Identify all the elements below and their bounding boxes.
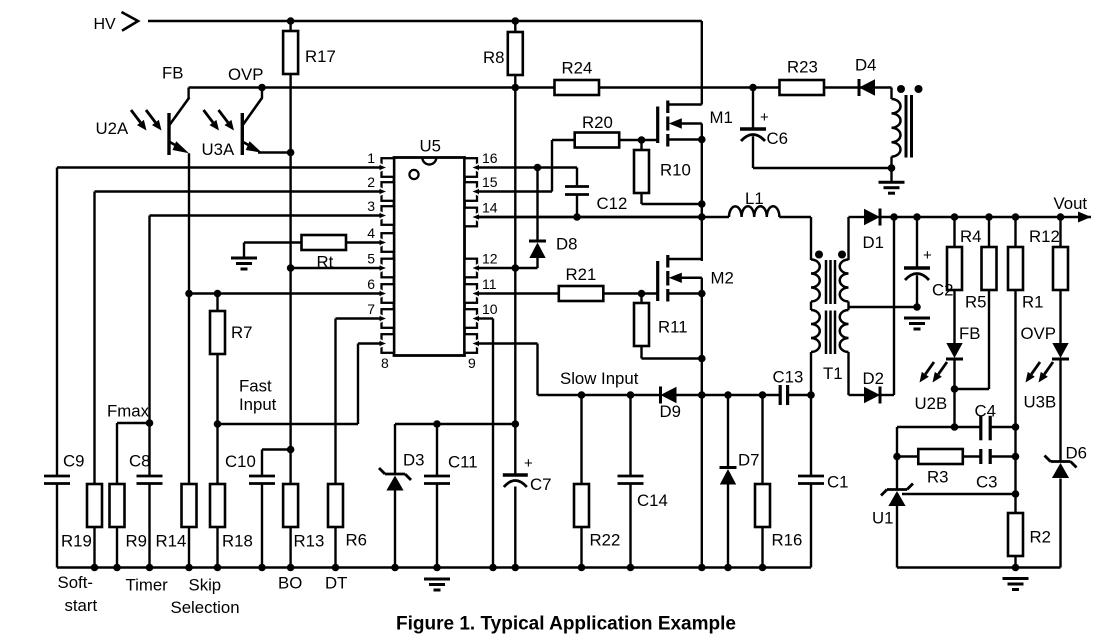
wire R2 top lead [1014,494,1016,513]
wire to R3 [897,455,919,457]
svg-text:D4: D4 [855,56,876,75]
svg-text:5: 5 [367,251,375,267]
svg-text:R2: R2 [1030,528,1051,547]
wire U2A collector [187,88,189,99]
svg-text:R4: R4 [960,227,981,246]
wire ground rail [57,566,811,568]
wire C2 bottom lead [916,274,918,307]
junction Fmax [146,419,154,427]
wire R8/Vcc column [514,21,516,476]
resistor R1 [1008,247,1023,290]
wire R10 bottom lead [640,193,642,204]
wire R16 bottom [761,527,763,568]
svg-text:Figure 1. Typical Application: Figure 1. Typical Application Example [396,614,736,635]
junction R8 bottom [512,84,520,92]
wire R12 top lead [1059,217,1061,247]
svg-text:R24: R24 [562,59,593,78]
svg-text:R18: R18 [222,532,253,551]
capacitor C3 [980,449,991,464]
svg-text:Fmax: Fmax [107,402,150,421]
capacitor C12 [565,187,589,195]
svg-text:R9: R9 [126,532,147,551]
svg-text:15: 15 [482,174,498,190]
wire U2A emitter / skip column [188,153,190,484]
resistor R8 [508,32,523,75]
junction R1 top [1012,213,1020,221]
capacitor C2 [904,268,930,280]
diode D2 [864,387,880,404]
junction M1 source [698,136,706,144]
transformer T1 core [825,260,828,304]
aux core [905,95,908,158]
wire U1 cathode to U2B [897,426,955,428]
wire R17/R13 column [289,21,291,484]
wire C8 column [148,216,150,477]
aux phase dot right [915,85,923,93]
junction R10/source [698,200,706,208]
wire R1 top lead [1014,217,1016,247]
junction C6 top [749,84,757,92]
svg-text:start: start [65,596,98,615]
junction U2B/C4 wire [951,423,959,431]
wire R16 top lead [761,395,763,484]
transistor M2 [658,255,702,302]
wire R4 top lead [953,217,955,247]
junction R3 left [893,453,901,461]
junction R8 top [512,17,520,25]
resistor R7 [210,311,225,354]
wire T1 secondary bottom lead [847,352,849,395]
capacitor C6 [740,129,766,141]
transistor M1 [658,101,702,147]
wire C10 top lead [261,450,263,477]
Vout arrow [1078,212,1091,223]
wire Fmax [117,422,150,424]
wire R9 bottom [116,527,118,568]
wire fast input [218,423,359,425]
U5 pin1 mark [409,170,418,179]
resistor R3 [918,449,963,464]
svg-text:D8: D8 [556,235,577,254]
wire pin11 [477,292,559,294]
wire M2 source column [701,278,703,568]
junction M2 source [698,290,706,298]
wire R12 to U3B [1059,290,1061,343]
junction C7 bottom [512,564,520,572]
svg-text:U1: U1 [872,509,893,528]
junction R4 top [951,213,959,221]
ground R2 [1003,579,1029,590]
wire pin7 DT [336,317,382,319]
T1 phase dot secondary [838,251,846,259]
junction R5 top [985,213,993,221]
wire T1 bottom / C1 column [810,395,812,476]
wire M1 source to M2 drain [701,124,703,262]
svg-text:R14: R14 [156,532,187,551]
svg-text:14: 14 [482,200,498,216]
ground main [424,579,450,590]
resistor R12 [1053,247,1068,290]
svg-text:R17: R17 [305,47,336,66]
junction C11 top [433,420,441,428]
wire D2 output [881,394,895,396]
svg-text:Input: Input [239,395,277,414]
junction R9 bottom [113,564,121,572]
HV input connector [122,12,139,31]
wire R11 bottom lead [640,346,642,359]
junction Vcc pin 12 [512,264,520,272]
wire U3A collector [261,88,263,99]
wire D3 bottom lead [394,490,396,568]
capacitor C1 [798,476,824,484]
wire R2 bottom lead [1014,556,1016,568]
wire D6 anode lead [1059,479,1061,568]
wire HV top rail [148,20,702,22]
wire pin8 [358,342,382,344]
wire pin2 [95,190,382,192]
wire R1 column down [1014,290,1016,494]
junction D7 bottom [724,564,732,572]
svg-text:R19: R19 [61,532,92,551]
wire T1 primary top lead [810,217,812,260]
wire R14 to ground rail [188,527,190,568]
opto transistor U2A [169,98,189,156]
resistor R6 [328,484,343,527]
wire R5 bottom lead [988,290,990,389]
junction U2B/R5 [951,385,959,393]
capacitor C14 [618,476,644,484]
svg-text:M2: M2 [711,269,734,288]
svg-text:R3: R3 [927,468,948,487]
junction D8 top [534,164,542,172]
wire R23 to D4 [824,86,859,88]
svg-text:C2: C2 [932,281,953,300]
wire D8 anode lead [536,258,538,268]
wire C14 top lead [629,395,631,476]
junction R18 bottom [214,564,222,572]
svg-text:R5: R5 [965,293,986,312]
U5 left pins [380,158,395,177]
svg-text:+: + [923,247,932,264]
wire pin14 to half bridge [477,216,702,218]
svg-text:C6: C6 [767,129,788,148]
svg-text:M1: M1 [710,108,733,127]
U3B light arrow 2 [1039,362,1054,383]
wire R11 to source [642,357,702,359]
wire C2 top lead [916,217,918,268]
wire aux bottom lead [890,157,892,181]
U5 right pins [465,158,480,177]
svg-text:D7: D7 [738,451,759,470]
junction C4/R1 [1012,423,1020,431]
wire C12 bottom lead [576,195,578,218]
U5 notch [422,158,436,165]
resistor R20 [575,133,620,148]
IC U5 body [394,158,465,356]
wire FB/OVP/Vcc rail [189,86,555,88]
wire C11 bottom [436,484,438,568]
resistor R14 [182,484,197,527]
resistor R23 [780,80,825,95]
svg-text:HV: HV [94,16,117,33]
svg-text:L1: L1 [745,189,764,208]
wire C6 bottom lead [752,135,754,168]
wire pin10 down [492,319,494,568]
svg-text:6: 6 [367,276,375,292]
wire R5 to U2B junction [955,388,990,390]
svg-text:C7: C7 [530,475,551,494]
aux phase dot left [897,85,905,93]
capacitor C4 [980,416,991,441]
svg-text:R20: R20 [582,113,613,132]
U2B light arrow 1 [920,362,935,383]
transformer T1 secondary [840,260,849,302]
wire C6 top lead [752,88,754,130]
wire C7 to ground rail [514,487,516,568]
wire aux winding top lead [890,88,892,100]
wire R7/R18 column [216,294,218,485]
svg-text:U3A: U3A [202,140,235,159]
svg-text:Skip: Skip [189,576,222,595]
wire D2 to Vout rail [893,217,895,395]
junction ref/R2 [1012,490,1020,498]
wire pin16 [477,166,577,168]
junction C14 top [627,391,635,399]
svg-text:T1: T1 [823,364,843,383]
wire C13 to T1 [788,394,811,396]
U3A light arrow 2 [219,110,235,131]
wire R13 to ground rail [289,527,291,568]
wire C8 bottom [148,484,150,568]
svg-text:16: 16 [482,150,498,166]
svg-text:C11: C11 [448,453,478,472]
svg-text:C14: C14 [637,491,668,510]
junction R14 bottom [185,564,193,572]
wire T1 primary bottom lead [810,352,812,395]
wire R20 to M1 gate [619,139,658,141]
wire D3/C11/C7 [395,423,515,425]
wire C1 bottom [810,484,812,568]
junction R16 top [759,391,767,399]
junction R12 top [1057,213,1065,221]
wire C11 top lead [436,424,438,476]
svg-text:+: + [524,455,533,472]
wire pin12 Vcc [477,267,538,269]
svg-text:D9: D9 [660,402,681,421]
wire to C4 [955,426,982,428]
svg-text:R8: R8 [483,48,504,67]
svg-text:D3: D3 [403,451,424,470]
wire Rt to ground [244,241,302,243]
wire pin3 timer [150,214,382,216]
resistor R5 [982,247,997,290]
wire U2B cathode down [953,360,955,427]
svg-text:FB: FB [959,324,980,343]
U3B light arrow 1 [1026,362,1041,383]
resistor R18 [210,484,225,527]
junction M2 source ground [698,564,706,572]
resistor R13 [283,484,298,527]
wire DT/R6 column [334,319,336,485]
svg-text:C8: C8 [129,452,150,471]
wire U3A emitter to R17 column [258,151,291,153]
resistor R2 [1008,513,1023,556]
svg-text:R16: R16 [772,531,803,550]
wire R21 to M2 gate [603,292,657,294]
wire D9 to C13 [677,394,781,396]
wire R9 column [116,423,118,484]
ground Rt [231,258,257,269]
wire R4 to U2B [953,290,955,343]
resistor Rt [302,235,347,250]
svg-text:C10: C10 [225,452,256,471]
junction R22 bottom [578,564,586,572]
resistor R17 [283,31,298,74]
svg-text:R21: R21 [566,265,597,284]
wire R10 top lead [640,140,642,150]
resistor R19 [87,484,102,527]
svg-text:Timer: Timer [126,576,169,595]
wire R19 column [93,192,95,485]
junction R2 bottom [1012,564,1020,572]
wire L1 to T1 [779,216,811,218]
resistor R16 [755,484,770,527]
svg-text:U2B: U2B [915,394,948,413]
diode D8 symbol [529,241,546,258]
wire to D1 [849,216,865,218]
svg-text:+: + [760,109,769,126]
svg-text:9: 9 [468,355,476,371]
svg-text:D1: D1 [863,233,884,252]
junction BO pin 5 [287,264,295,272]
svg-text:R1: R1 [1022,293,1043,312]
wire C9 column [56,168,58,477]
junction aux/C6/ground [888,164,896,172]
svg-text:R10: R10 [660,161,691,180]
wire slow input [538,394,661,396]
resistor R22 [574,484,589,527]
junction C2 top [913,213,921,221]
wire M1 drain from top rail [701,21,703,105]
wire pin1 soft-start [57,166,382,168]
wire R22 bottom [580,527,582,568]
capacitor C10 [249,476,275,484]
svg-text:Fast: Fast [239,377,272,396]
ground aux [879,182,905,193]
opto transistor U3A [242,98,262,156]
svg-text:C4: C4 [975,402,996,421]
diode D7 [720,468,737,485]
svg-text:FB: FB [162,64,183,83]
wire R11 top lead [640,294,642,304]
resistor R4 [947,247,962,290]
wire bottom right net [897,566,1061,568]
svg-text:R6: R6 [346,531,367,550]
diode D4 [859,79,875,96]
resistor R9 [110,484,125,527]
junction pin10 ground [489,564,497,572]
svg-text:BO: BO [278,574,302,593]
wire to R20 [552,139,575,141]
U2A light arrow 1 [131,110,147,131]
junction R10 top [638,136,646,144]
svg-text:R13: R13 [294,532,325,551]
resistor R10 [634,150,649,193]
wire T1 center tap [849,306,918,308]
svg-text:R7: R7 [231,323,252,342]
resistor R21 [559,286,604,301]
junction R11/source [698,355,706,363]
junction R16 bottom [759,564,767,572]
capacitor C9 [44,476,70,484]
svg-text:OVP: OVP [1021,324,1056,343]
aux winding coil [892,99,901,157]
svg-text:D6: D6 [1066,444,1087,463]
wire C3 to R1 [989,455,1015,457]
wire C6 to aux ground [753,167,892,169]
wire Vout rail [881,216,1092,218]
wire U1 ref [902,493,1016,495]
wire U3B to D6 [1059,360,1061,462]
transformer T1 primary [811,260,820,302]
svg-text:U3B: U3B [1024,393,1057,412]
svg-text:3: 3 [367,198,375,214]
svg-text:7: 7 [367,301,375,317]
junction half-bridge [698,213,706,221]
wire D8 cathode lead [536,168,538,242]
junction R11 top [638,290,646,298]
junction fast input [214,420,222,428]
svg-text:DT: DT [325,574,347,593]
wire R19 bottom [93,527,95,568]
wire C14 bottom [629,484,631,568]
U5 pin 8 box [380,334,395,353]
U3A light arrow 1 [204,110,220,131]
junction U3A emitter / R17 [287,149,295,157]
LED U2B [946,343,963,359]
svg-text:8: 8 [381,355,389,371]
wire R5 top lead [988,217,990,247]
svg-text:C12: C12 [597,194,628,213]
wire C4 to R1 [989,426,1015,428]
junction R17 top [287,17,295,25]
junction R7 top [214,290,222,298]
svg-text:C3: C3 [976,473,997,492]
diode D1 [864,209,880,226]
wire D3 top lead [394,424,396,474]
junction C14 bottom [627,564,635,572]
U5 pin 9 box [465,334,480,353]
svg-text:12: 12 [482,251,498,267]
wire R18 bottom [216,527,218,568]
svg-text:D2: D2 [863,369,884,388]
junction C10 bottom [258,564,266,572]
svg-text:R12: R12 [1029,227,1060,246]
resistor R24 [555,80,600,95]
junction OVP [258,84,266,92]
wire C9 bottom [56,484,58,568]
svg-text:Vout: Vout [1054,194,1088,213]
junction C8 bottom [146,564,154,572]
wire C12 top lead [576,168,578,187]
wire R10 to source [642,203,702,205]
zener D3 [379,468,411,491]
junction pin6/skip [185,290,193,298]
resistor R11 [634,303,649,346]
capacitor C11 [424,476,450,484]
svg-text:10: 10 [482,301,498,317]
svg-text:Soft-: Soft- [58,573,93,592]
